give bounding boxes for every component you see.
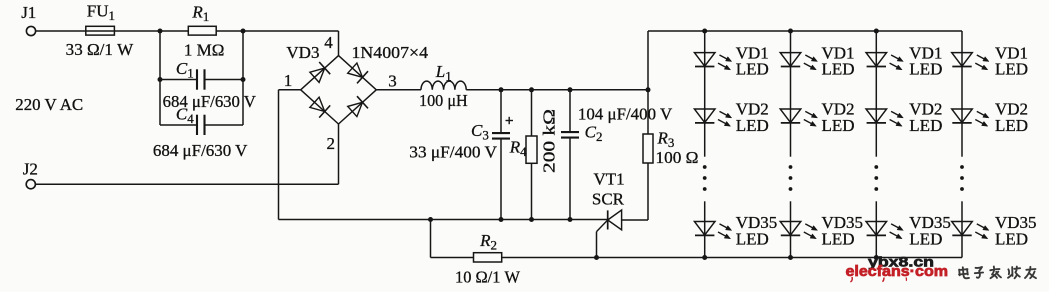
svg-text:LED: LED (736, 60, 769, 79)
svg-text:LED: LED (909, 230, 942, 249)
svg-text:684 μF/630 V: 684 μF/630 V (153, 141, 248, 160)
svg-text:LED: LED (822, 230, 855, 249)
svg-text:VT1: VT1 (594, 170, 625, 189)
svg-text:LED: LED (909, 60, 942, 79)
svg-text:1N4007×4: 1N4007×4 (352, 43, 429, 62)
svg-text:LED: LED (822, 60, 855, 79)
svg-text:220 V AC: 220 V AC (15, 95, 83, 114)
svg-text:VD3: VD3 (286, 43, 319, 62)
svg-text:J2: J2 (23, 160, 38, 179)
svg-text:100 μH: 100 μH (419, 91, 468, 110)
svg-text:10 Ω/1 W: 10 Ω/1 W (455, 268, 521, 287)
svg-text:104 μF/400 V: 104 μF/400 V (578, 105, 673, 124)
svg-text:LED: LED (995, 116, 1028, 135)
svg-text:1: 1 (284, 71, 293, 90)
svg-text:J1: J1 (21, 3, 36, 22)
svg-text:LED: LED (909, 116, 942, 135)
svg-text:3: 3 (388, 72, 397, 91)
svg-text:LED: LED (736, 230, 769, 249)
svg-text:33 μF/400 V: 33 μF/400 V (409, 142, 497, 161)
svg-text:LED: LED (995, 60, 1028, 79)
svg-text:1 MΩ: 1 MΩ (184, 40, 225, 59)
svg-text:33 Ω/1 W: 33 Ω/1 W (66, 40, 134, 59)
svg-text:LED: LED (736, 116, 769, 135)
svg-text:LED: LED (995, 230, 1028, 249)
svg-text:LED: LED (822, 116, 855, 135)
svg-text:100 Ω: 100 Ω (656, 148, 699, 167)
svg-text:2: 2 (327, 134, 336, 153)
svg-text:200 kΩ: 200 kΩ (540, 109, 559, 173)
svg-text:SCR: SCR (592, 190, 625, 209)
svg-text:elecfans·com: elecfans·com (846, 263, 949, 280)
svg-text:4: 4 (324, 33, 333, 52)
